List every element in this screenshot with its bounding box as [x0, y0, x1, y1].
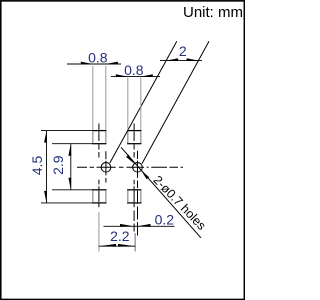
centerline bottom-left pad vertical	[98, 180, 100, 208]
dim 0.8 second: arrows	[116, 74, 128, 77]
leader arrowhead lower (points at hole from lower-right)	[141, 170, 149, 179]
dim 0.2: arrows	[120, 224, 134, 227]
centerline left hole vertical	[105, 151, 107, 182]
dim 0.2: dimension line	[104, 225, 175, 227]
svg-text:2: 2	[179, 43, 187, 59]
centerline bottom-right pad vertical	[133, 180, 135, 232]
svg-text:2.2: 2.2	[110, 228, 130, 244]
svg-text:Unit: mm: Unit: mm	[183, 4, 243, 21]
svg-text:0.8: 0.8	[88, 50, 108, 66]
border frame	[1, 1, 245, 300]
dim 4.5: extension lines	[41, 130, 92, 132]
pad bottom-right	[128, 190, 141, 203]
dim 2.2: dimension line	[99, 245, 136, 247]
dim 2.2: extension line right (solid)	[134, 233, 136, 252]
centerline top-right pad vertical	[133, 124, 135, 158]
diagonal extension line right	[142, 41, 209, 163]
dim 2.2: arrows	[99, 244, 116, 247]
diagonal extension line left	[110, 41, 177, 163]
leader arrowhead upper (points at hole from upper-left)	[126, 155, 134, 164]
dim 0.8 first: dimension line	[67, 63, 121, 65]
pad top-left	[93, 131, 106, 144]
svg-text:4.5: 4.5	[29, 156, 45, 176]
dim 4.5: dimension line	[46, 131, 48, 203]
dim 0.8 first: extension lines	[92, 66, 94, 130]
svg-text:2.9: 2.9	[50, 155, 66, 175]
hole right	[133, 163, 143, 173]
dim 2.9: arrows	[68, 144, 71, 156]
dim 4.5: arrows	[44, 131, 47, 143]
centerline holes horizontal	[77, 166, 183, 168]
leader line for holes note	[121, 147, 201, 238]
svg-text:0.2: 0.2	[155, 211, 175, 227]
pad bottom-left	[93, 190, 106, 203]
dim 2.9: extension lines	[52, 143, 92, 145]
centerline top-left pad vertical	[98, 124, 100, 158]
dim 2.2: extension line left (solid)	[98, 212, 100, 252]
dim 2.9: dimension line	[70, 144, 72, 190]
svg-text:0.8: 0.8	[124, 62, 144, 78]
dim 0.8 first: arrows	[81, 62, 93, 65]
hole left	[101, 163, 111, 173]
dim 0.8 second: extension lines	[127, 78, 129, 131]
centerline right hole vertical	[137, 151, 139, 236]
dim 2: dimension line	[160, 60, 202, 62]
dim 0.8 second: dimension line	[111, 76, 160, 78]
dim 2: arrows	[166, 58, 178, 61]
pad top-right	[128, 131, 141, 144]
